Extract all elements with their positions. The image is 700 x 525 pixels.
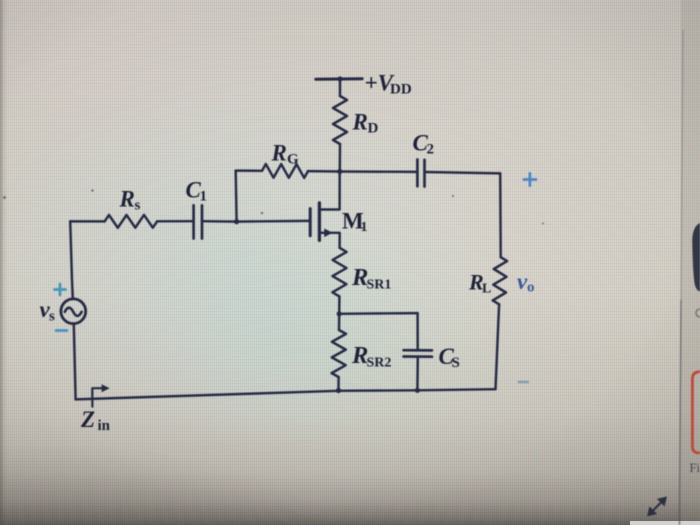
- wire right branch top: [499, 173, 502, 257]
- resistor Rs: [105, 215, 158, 228]
- divider line right: [681, 30, 683, 300]
- wire left branch lower: [74, 324, 76, 400]
- wire RSR1 to source node: [338, 296, 341, 313]
- dust specks: [91, 189, 93, 191]
- wire source left end: [70, 220, 104, 222]
- wire right branch bottom: [496, 304, 500, 389]
- source vs sine symbol: [65, 308, 82, 316]
- wire RSR2 to bottom rail: [337, 377, 340, 391]
- wire CS to bottom rail: [416, 357, 419, 391]
- svg-text:L: L: [482, 282, 491, 297]
- transistor M1 gate bar: [309, 209, 312, 236]
- svg-text:in: in: [98, 418, 111, 434]
- wire RG branch vertical: [234, 171, 237, 222]
- node drain junction dot: [337, 169, 342, 174]
- node RSR2 bottom junction dot: [336, 388, 341, 393]
- resistor RD: [333, 96, 347, 144]
- wire C2 to top-right corner: [426, 172, 501, 173]
- svg-text:DD: DD: [390, 82, 412, 98]
- capacitor CS: [404, 349, 432, 352]
- source vs circle: [61, 299, 86, 324]
- svg-text:s: s: [49, 309, 55, 325]
- cursor resize arrow: [648, 498, 665, 515]
- dark blob right edge: [692, 223, 700, 292]
- node VDD junction dot: [337, 76, 342, 81]
- capacitor C2: [416, 160, 419, 187]
- svg-text:R: R: [352, 110, 368, 135]
- wire RG-line left segment: [236, 169, 262, 172]
- node CS bottom junction dot: [415, 388, 420, 393]
- capacitor C1: [192, 205, 195, 238]
- wire C1 to gate node: [203, 220, 236, 223]
- transistor M1 source arrow: [324, 229, 332, 238]
- plus sign output: [524, 173, 536, 185]
- resistor RG: [262, 164, 308, 178]
- wire RD bottom to drain node: [339, 144, 342, 172]
- wire gate node to M1 gate: [237, 220, 309, 223]
- transistor M1 drain lead: [319, 172, 339, 210]
- wire RSR2 top stem: [338, 314, 341, 330]
- svg-text:G: G: [287, 152, 299, 168]
- arrow Zin: [92, 388, 103, 406]
- svg-text:Z: Z: [80, 407, 95, 432]
- wire bottom rail: [76, 389, 496, 399]
- svg-text:1: 1: [361, 220, 368, 235]
- small c mark right edge: [696, 309, 700, 317]
- wire drain node to C2: [340, 170, 416, 173]
- resistor RL: [493, 257, 507, 304]
- svg-text:o: o: [527, 280, 535, 296]
- minus sign vs: [56, 329, 67, 332]
- node source junction dot: [337, 311, 342, 316]
- svg-text:D: D: [368, 121, 379, 137]
- node gate junction dot: [234, 219, 239, 224]
- wire source node to CS branch: [339, 312, 417, 315]
- orange panel corner: [692, 372, 700, 453]
- transistor M1 channel bar: [318, 203, 321, 241]
- svg-text:R: R: [271, 141, 287, 166]
- svg-text:SR1: SR1: [367, 278, 392, 293]
- svg-text:s: s: [135, 198, 141, 214]
- wire left branch upper: [70, 221, 73, 299]
- minus sign output: [519, 381, 528, 384]
- transistor M1 source lead: [319, 233, 339, 248]
- plus sign vs: [55, 284, 66, 295]
- svg-text:R: R: [119, 187, 135, 212]
- svg-text:1: 1: [200, 189, 208, 205]
- svg-text:S: S: [452, 355, 460, 371]
- svg-text:SR2: SR2: [367, 356, 392, 371]
- wire Rs to C1: [157, 220, 192, 223]
- VDD supply bar: [316, 77, 362, 81]
- svg-text:2: 2: [427, 142, 435, 158]
- resistor RSR2: [332, 330, 346, 377]
- wire RG to drain node: [308, 170, 340, 173]
- resistor RSR1: [332, 248, 346, 297]
- wire VDD stem to RD: [339, 79, 341, 96]
- svg-text:Fi: Fi: [690, 461, 700, 475]
- wire CS branch down: [416, 313, 419, 350]
